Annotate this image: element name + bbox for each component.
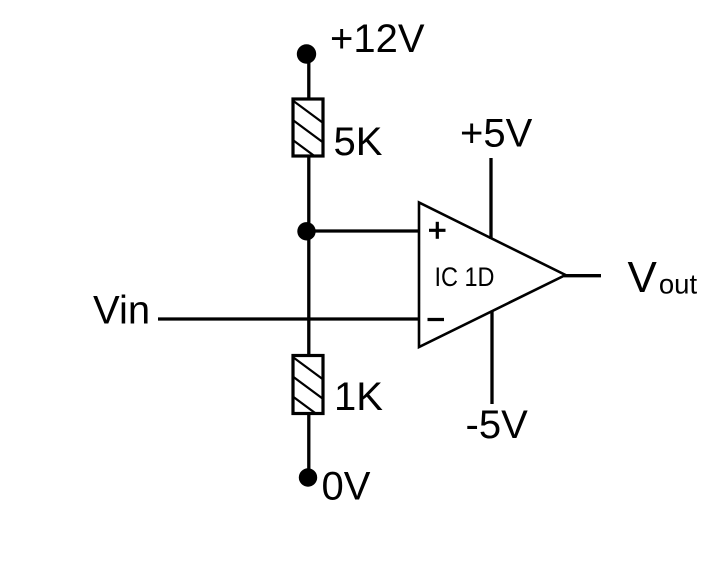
- wire R1 to R2 through junction and Vin crossing: [307, 156, 310, 356]
- svg-text:+5V: +5V: [460, 112, 533, 156]
- wire junction to op-amp + input: [308, 229, 419, 232]
- op-amp - input symbol: [428, 318, 445, 321]
- wire +5V supply to op-amp top edge: [489, 158, 492, 239]
- svg-text:Vin: Vin: [93, 289, 150, 333]
- svg-text:1K: 1K: [334, 375, 383, 419]
- node 0V dot: [299, 468, 317, 486]
- svg-text:-5V: -5V: [466, 403, 529, 447]
- op-amp + input symbol: [429, 222, 446, 239]
- resistor R2 1K: [288, 354, 330, 425]
- node +12V supply dot: [297, 44, 316, 63]
- wire Vin to op-amp - input: [158, 317, 419, 320]
- svg-text:Vout: Vout: [628, 253, 698, 302]
- svg-text:IC 1D: IC 1D: [435, 262, 495, 292]
- svg-text:+12V: +12V: [330, 17, 425, 61]
- svg-text:0V: 0V: [322, 465, 371, 509]
- wire op-amp bottom edge to -5V supply: [490, 311, 493, 405]
- wire top dot to R1: [307, 54, 310, 100]
- svg-text:5K: 5K: [334, 120, 383, 164]
- wire op-amp output: [564, 274, 601, 277]
- resistor R1 5K: [288, 97, 330, 168]
- wire R2 to ground dot: [307, 414, 310, 478]
- op-amp U1 triangle: [419, 203, 566, 348]
- junction node dot: [297, 222, 315, 240]
